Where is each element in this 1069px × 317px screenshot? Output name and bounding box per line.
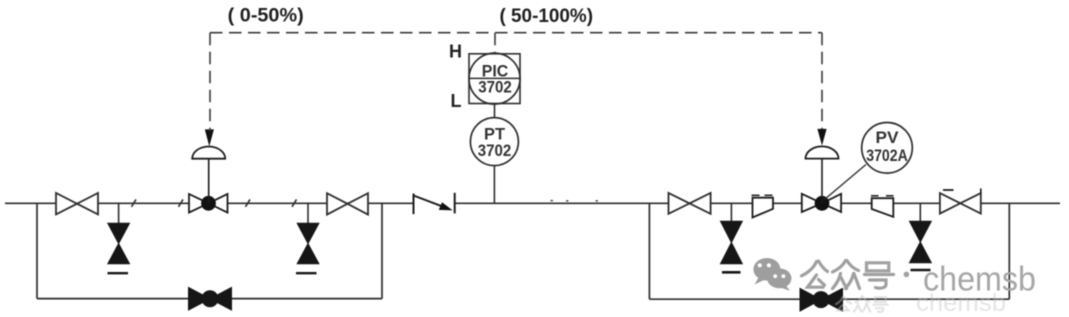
drain 2 end mark — [296, 272, 317, 274]
svg-text:chemsb: chemsb — [916, 289, 1006, 317]
split range label (0-50%) — [228, 4, 304, 26]
watermark text chemsb — [923, 261, 1036, 299]
drain branch 4 stub — [919, 203, 921, 222]
drain valve 3 (closed, filled) — [721, 221, 743, 263]
leader line to PV tag — [825, 165, 867, 200]
control valve PV-3702 left body — [189, 194, 228, 213]
line break / slope symbol — [414, 193, 455, 214]
alarm label L — [451, 91, 462, 111]
right valve stem tick — [980, 188, 982, 193]
svg-text:L: L — [451, 91, 462, 111]
split range label (50-100%) — [500, 5, 594, 27]
svg-text:PV: PV — [876, 128, 900, 147]
control valve left stem — [208, 159, 210, 203]
svg-text:3702: 3702 — [478, 78, 512, 97]
eccentric reducer 2 (flat top) — [872, 198, 894, 217]
gate valve (left block valve 2) — [327, 193, 368, 214]
watermark separator dot — [904, 272, 910, 278]
right bypass globe valve (closed, filled) — [800, 289, 843, 312]
svg-text:H: H — [449, 42, 462, 62]
controller PIC-3702 mid line — [469, 77, 520, 79]
watermark glyph zhong — [833, 261, 860, 289]
pipe tick 3 — [246, 199, 251, 206]
instrument signal dashed lines — [210, 33, 822, 131]
gate valve (left block valve 1) — [56, 193, 98, 214]
watermark wechat icon — [753, 258, 791, 291]
control valve PV-3702A body — [802, 194, 841, 212]
drain branch 3 stub — [730, 203, 732, 222]
alarm label H — [449, 42, 462, 62]
main process pipe (left run) — [5, 202, 414, 204]
watermark glyph gong — [802, 261, 828, 287]
controller PIC-3702 square — [469, 54, 520, 104]
left bypass globe valve (closed, filled) — [189, 288, 232, 311]
gate valve (right block valve 1) — [669, 193, 711, 214]
valve tag PV — [876, 128, 900, 147]
svg-text:( 0-50%): ( 0-50%) — [228, 4, 304, 26]
controller PIC-3702 circle — [469, 53, 520, 104]
drain valve 1 (closed, filled) — [108, 223, 130, 263]
signal arrow into right actuator — [817, 129, 826, 146]
control valve left ball — [201, 196, 216, 211]
right bypass piping — [649, 203, 1009, 299]
eccentric reducer 1 (flat top) — [753, 198, 774, 218]
pipe tick 4 — [292, 199, 297, 206]
control valve left actuator dome — [192, 146, 225, 158]
controller tag PIC — [482, 62, 509, 81]
control valve right ball — [815, 196, 830, 211]
drain valve 2 (closed, filled) — [297, 223, 319, 263]
right valve top dash — [943, 189, 954, 191]
line break arrowhead — [439, 202, 453, 210]
valve tag 3702A — [866, 146, 908, 165]
left bypass piping — [37, 203, 382, 298]
controller tag 3702 — [478, 78, 512, 97]
reducer 2 top dashes — [871, 195, 894, 197]
PT process tap line — [493, 166, 495, 204]
drain 1 end mark — [108, 272, 129, 274]
PIC to PT connecting line — [494, 104, 496, 118]
signal arrow into left actuator — [205, 129, 214, 146]
drain branch 2 stub — [307, 203, 309, 224]
svg-text:3702: 3702 — [478, 141, 512, 160]
valve tag PV-3702A circle — [862, 123, 913, 174]
control valve right actuator dome — [806, 146, 839, 158]
transmitter PT-3702 circle — [470, 118, 518, 166]
control valve right stem — [821, 159, 823, 203]
svg-text:3702A: 3702A — [866, 146, 908, 165]
main process pipe (right run) — [455, 202, 1060, 204]
reducer 1 top dashes — [752, 194, 773, 196]
pipe tick 1 — [132, 199, 137, 206]
svg-text:( 50-100%): ( 50-100%) — [500, 5, 594, 27]
pipe specks — [551, 200, 599, 202]
faint second watermark row — [836, 289, 1006, 317]
watermark glyph hao — [865, 263, 894, 288]
pipe tick 2 — [179, 199, 184, 206]
transmitter tag PT — [484, 125, 506, 144]
drain valve 4 (closed, filled) — [910, 221, 932, 263]
drain 4 end mark — [911, 269, 931, 272]
transmitter tag 3702 — [478, 141, 512, 160]
gate valve (right block valve 2) — [940, 193, 981, 214]
drain branch 1 stub — [118, 203, 120, 224]
drain 3 end mark — [722, 271, 741, 274]
